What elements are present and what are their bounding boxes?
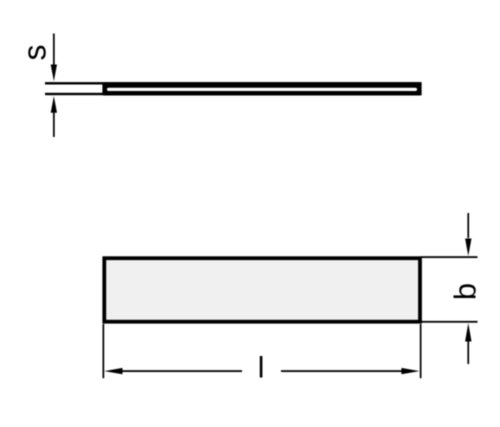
strip side view: sectioned (blackened) body [102,82,421,95]
strip side view: white core of sectioned body [107,88,417,91]
dimension l: left dimension line segment [120,370,242,372]
dimension b: upper dimension line [467,213,469,238]
dimension b: upper arrowhead (points down) [465,239,471,257]
dimension l: right arrowhead (points right) [401,368,419,374]
dimension s: upper dimension line [53,34,55,67]
dimension l: left arrowhead (points left) [104,368,122,374]
dimension s: lower arrowhead (points up) [51,96,57,113]
dimension l: right dimension line segment [281,370,403,372]
extension line for b: upper [421,256,478,258]
svg-text:l: l [258,352,265,385]
extension line for l: left [103,324,105,378]
dimension b: lower arrowhead (points up) [465,323,471,342]
strip side view: top surface line [45,82,422,84]
dimension s: upper arrowhead (points down) [51,65,57,82]
svg-text:b: b [448,283,483,300]
strip side view: bottom surface line [45,93,422,95]
dimension b: lower dimension line [467,341,469,364]
svg-text:s: s [17,45,53,61]
extension line for b: lower [421,321,478,323]
extension line for l: right [420,324,422,378]
strip top view: body outline with light grey fill [104,258,420,322]
dimension s: lower dimension line [53,112,55,137]
